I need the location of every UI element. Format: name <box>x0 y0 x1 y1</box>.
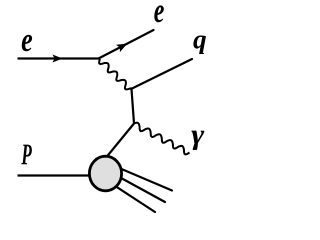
svg-text:e: e <box>21 20 33 58</box>
svg-text:γ: γ <box>191 118 205 150</box>
svg-text:P: P <box>21 138 33 171</box>
svg-text:q: q <box>193 24 207 54</box>
svg-text:e: e <box>154 0 165 30</box>
